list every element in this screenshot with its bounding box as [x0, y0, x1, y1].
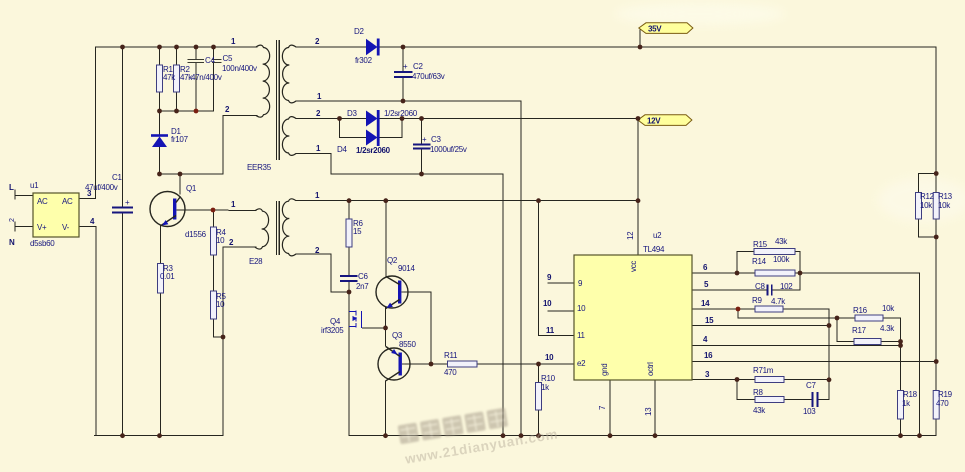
svg-text:43k: 43k	[775, 237, 788, 246]
wire node to R11	[431, 363, 448, 365]
wire secondary A return down	[520, 101, 522, 436]
wire R8/C7 branch jog	[737, 380, 755, 400]
wire Q2/Q3 emitter junction	[385, 307, 387, 346]
junction (159.5,435.7)	[157, 433, 162, 438]
resistor R7	[755, 377, 784, 383]
resistor R12	[916, 193, 922, 220]
resistor R11	[448, 361, 478, 367]
wire Q3 collector to ground rail	[385, 381, 387, 436]
svg-text:C1: C1	[112, 173, 122, 182]
diode D2 fr302	[366, 39, 378, 55]
svg-text:C4: C4	[205, 56, 215, 65]
svg-text:D4: D4	[337, 145, 347, 154]
wire N input stub	[15, 226, 33, 228]
wire pin6 feedback down to ground rail	[919, 273, 921, 436]
svg-text:11: 11	[577, 331, 586, 340]
net flag 12V	[638, 115, 692, 126]
wire C4 leads	[195, 47, 197, 59]
svg-text:+: +	[403, 62, 408, 71]
junction (936.2,173.5)	[934, 171, 939, 176]
wire pin5 to C8	[692, 289, 767, 291]
svg-text:47k: 47k	[163, 73, 176, 82]
diode D4 1/2sr2060	[366, 130, 378, 146]
capacitor C8 plates	[767, 285, 769, 296]
svg-text:100n/400v: 100n/400v	[222, 64, 257, 73]
svg-text:15: 15	[705, 316, 714, 325]
svg-text:vcc: vcc	[629, 261, 638, 272]
wire 12V vertical to IC pin12	[637, 119, 639, 256]
wire secondary ground rail	[349, 435, 936, 437]
transistor Q2 9014	[376, 276, 408, 308]
junction (122.5,47)	[120, 45, 125, 50]
junction (538.5,435.7)	[536, 433, 541, 438]
svg-text:R14: R14	[752, 257, 767, 266]
junction (349,200.7)	[347, 198, 352, 203]
svg-text:C2: C2	[413, 62, 423, 71]
svg-text:100k: 100k	[773, 255, 790, 264]
resistor R18	[898, 391, 904, 420]
svg-text:N: N	[9, 238, 15, 247]
wire pin14 to R9	[692, 308, 755, 310]
junction (385.5,327.9)	[383, 326, 388, 331]
bridge rectifier u1 d5sb60	[33, 193, 79, 237]
svg-text:Q4: Q4	[330, 317, 341, 326]
transistor Q3 8550	[378, 348, 410, 380]
svg-text:C6: C6	[358, 272, 368, 281]
capacitor C2 plates	[394, 71, 413, 73]
junction (919.5,435.7)	[917, 433, 922, 438]
junction (385.8,200.7)	[383, 198, 388, 203]
wire IC pin9 stub	[548, 282, 574, 284]
junction (936.2,361.5)	[934, 359, 939, 364]
junction (737,273)	[735, 271, 740, 276]
svg-text:D3: D3	[347, 109, 357, 118]
svg-text:9014: 9014	[398, 264, 415, 273]
wire Q1 collector	[179, 174, 181, 194]
wire Q1 emitter to R3	[160, 225, 162, 264]
svg-text:12V: 12V	[647, 117, 661, 126]
svg-text:4.7k: 4.7k	[771, 297, 786, 306]
svg-text:10k: 10k	[920, 201, 933, 210]
wire Q2 base jog	[403, 292, 431, 364]
wire pin15/R9 node down to pin3 network	[828, 326, 830, 400]
wire pin3 line to R7	[692, 379, 755, 381]
wire pin4 line	[692, 345, 901, 347]
wire bridge V+ pin3 up to rail	[79, 47, 96, 199]
wire D4 output jog	[378, 119, 402, 138]
junction (402,118.5)	[400, 116, 405, 121]
junction (196,111)	[194, 109, 199, 114]
transformer T1 EER35 core	[276, 40, 278, 160]
resistor R9	[755, 306, 783, 312]
junction (213.5,47)	[211, 45, 216, 50]
wire R15 parallel jog	[737, 252, 754, 274]
wire pin4 node down to R18	[900, 346, 902, 391]
junction (837,318)	[835, 316, 840, 321]
wire D4 parallel branch	[340, 119, 367, 138]
junction (738,309)	[736, 307, 741, 312]
junction (196,47)	[194, 45, 199, 50]
svg-text:V+: V+	[37, 223, 47, 232]
junction (176.5,47)	[174, 45, 179, 50]
junction (176.5,111)	[174, 109, 179, 114]
svg-text:13: 13	[644, 407, 653, 416]
wire C7 to riser	[818, 399, 829, 401]
svg-text:470: 470	[444, 368, 457, 377]
capacitor C5 plates	[212, 58, 222, 60]
resistor R5	[211, 291, 217, 319]
resistor R19	[933, 391, 939, 420]
wire R2 leads	[176, 47, 178, 65]
svg-text:R8: R8	[753, 388, 763, 397]
wire right column R13 node down through pin16 to R19	[935, 237, 937, 391]
svg-text:16: 16	[704, 351, 713, 360]
junction (349,292)	[347, 290, 352, 295]
wire R4-R5 link	[213, 255, 215, 291]
transistor Q4 irf3205 mosfet	[349, 311, 362, 329]
wire R8 to C7	[784, 399, 812, 401]
wire secondary B top to D3	[296, 118, 366, 120]
junction (421.5,118.5)	[419, 116, 424, 121]
wire top rail secondary to D2	[296, 46, 366, 48]
svg-text:+: +	[125, 198, 130, 207]
junction (431,364)	[429, 362, 434, 367]
wire primary bottom ground rail	[95, 435, 224, 437]
resistor R6	[346, 219, 352, 247]
transformer T2 E28 primary winding	[255, 209, 269, 249]
wire R16 leads	[837, 317, 855, 319]
svg-text:R10: R10	[541, 374, 556, 383]
junction (159.5,174)	[157, 172, 162, 177]
junction (800,273)	[798, 271, 803, 276]
junction (122.5,435.7)	[120, 433, 125, 438]
svg-text:10: 10	[216, 236, 225, 245]
transformer T1 EER35 secondary winding B	[282, 117, 296, 156]
resistor R14	[755, 270, 795, 276]
junction (180,174)	[178, 172, 183, 177]
wire pin15 line	[692, 325, 829, 327]
wire snubber bottom node line	[160, 110, 214, 112]
wire secondary B bottom return	[296, 154, 503, 436]
svg-text:10: 10	[543, 299, 552, 308]
svg-text:15: 15	[353, 227, 362, 236]
junction (640,47)	[638, 45, 643, 50]
svg-text:4.3k: 4.3k	[880, 324, 895, 333]
svg-text:V-: V-	[62, 223, 70, 232]
wire pin6 line left of R14	[692, 272, 755, 274]
svg-text:TL494: TL494	[643, 245, 665, 254]
svg-text:R15: R15	[753, 240, 768, 249]
svg-text:C7: C7	[806, 381, 816, 390]
wire R3 bottom to ground rail	[160, 293, 162, 436]
resistor R13	[933, 193, 939, 220]
wire C8 to pin6 node	[772, 273, 800, 290]
junction (638,118.5)	[636, 116, 641, 121]
svg-text:14: 14	[701, 299, 710, 308]
junction (159.5,111)	[157, 109, 162, 114]
net flag 35V	[639, 23, 693, 34]
junction (829,379.8)	[827, 377, 832, 382]
wire R13 link in main column	[935, 219, 937, 237]
watermark smudge top right	[615, 3, 785, 25]
svg-text:u2: u2	[653, 231, 662, 240]
svg-text:R16: R16	[853, 306, 868, 315]
resistor R2	[174, 65, 180, 92]
wire R12 parallel jogs	[919, 174, 937, 193]
wire C1 top	[122, 47, 124, 207]
svg-text:R9: R9	[752, 296, 762, 305]
junction (610,435.7)	[608, 433, 613, 438]
diode D3 1/2sr2060	[366, 111, 378, 127]
svg-text:fr107: fr107	[171, 135, 189, 144]
junction (900.5,435.7)	[898, 433, 903, 438]
junction (403,101)	[401, 99, 406, 104]
wire Q4 gate line	[363, 327, 386, 329]
svg-text:11: 11	[546, 326, 555, 335]
wire C2 leads	[402, 47, 404, 71]
wire E28 sec pin2 to C6 bottom node	[296, 254, 349, 292]
svg-text:R17: R17	[852, 326, 867, 335]
svg-text:fr302: fr302	[355, 56, 373, 65]
svg-text:12: 12	[626, 231, 635, 240]
transformer T1 EER35 secondary winding A	[282, 45, 296, 103]
wire C1 bottom	[122, 213, 124, 436]
junction (403,47)	[401, 45, 406, 50]
wire pin16 line	[692, 361, 936, 363]
junction (900.5,345.5)	[898, 343, 903, 348]
wire 35V rail D2 to right column	[378, 46, 936, 48]
svg-text:1k: 1k	[902, 399, 911, 408]
svg-text:R18: R18	[903, 390, 918, 399]
transformer T2 E28 core	[276, 201, 278, 255]
wire R6 to C6	[348, 247, 350, 275]
wire R19 bottom	[935, 419, 937, 436]
wire IC pin10 stub	[548, 310, 574, 312]
wire IC pin11 riser to 12V/E28 line	[539, 201, 575, 336]
junction (213,210)	[211, 208, 216, 213]
svg-text:C3: C3	[431, 135, 441, 144]
capacitor C1 plates	[112, 207, 133, 209]
capacitor C4 plates	[188, 58, 205, 60]
wire top rail 35V primary side	[96, 46, 258, 48]
svg-text:47n/400v: 47n/400v	[191, 73, 222, 82]
wire IC gnd pin7	[609, 380, 611, 436]
svg-text:AC: AC	[62, 197, 73, 206]
wire C3 leads	[421, 119, 423, 145]
svg-text:Q2: Q2	[387, 256, 398, 265]
wire Q1 base to node	[177, 209, 213, 211]
wire pin14 tap down to R16/R17	[738, 309, 837, 318]
svg-text:gnd: gnd	[600, 364, 609, 376]
junction (159.5,47)	[157, 45, 162, 50]
wire R10 leads	[538, 364, 540, 383]
capacitor C6 plates	[340, 275, 358, 277]
wire Q2 collector from E28 line	[385, 201, 387, 277]
resistor R16	[855, 315, 883, 321]
wire L input stub	[15, 195, 33, 197]
svg-text:D2: D2	[354, 27, 364, 36]
wire clamp node line to primary pin2	[160, 116, 258, 175]
junction (900.5,341.5)	[898, 339, 903, 344]
svg-text:R19: R19	[938, 390, 953, 399]
svg-text:AC: AC	[37, 197, 48, 206]
svg-text:L: L	[9, 183, 14, 192]
wire E28 sec pin1 line to 12V vertical	[296, 200, 638, 202]
junction (829,325.5)	[827, 323, 832, 328]
svg-text:R71m: R71m	[753, 366, 774, 375]
svg-text:470: 470	[936, 399, 949, 408]
junction (385.5,435.7)	[383, 433, 388, 438]
transistor Q1 d1556	[150, 192, 185, 227]
svg-text:1000uf/25v: 1000uf/25v	[430, 145, 467, 154]
op-amp U2 TL494 body	[574, 255, 692, 380]
resistor R3	[158, 264, 164, 294]
svg-text:e2: e2	[577, 359, 586, 368]
svg-text:0.01: 0.01	[160, 272, 175, 281]
wire C6 bottom through Q4 to ground rail	[348, 282, 350, 436]
wire R9 out to pin15	[783, 309, 829, 326]
svg-text:R12: R12	[920, 192, 935, 201]
wire D1 anode lead to clamp node	[159, 147, 161, 174]
transformer T2 E28 secondary winding	[282, 199, 296, 256]
junction (339.5,118.5)	[337, 116, 342, 121]
svg-text:1/2sr2060: 1/2sr2060	[356, 146, 391, 155]
wire R1 leads	[159, 47, 161, 65]
junction (521,435.7)	[519, 433, 524, 438]
svg-text:R13: R13	[938, 192, 953, 201]
wire EER35 secondary A bottom line	[296, 100, 521, 102]
svg-text:d1556: d1556	[185, 230, 207, 239]
wire R4 top lead	[213, 210, 215, 227]
svg-text:10: 10	[216, 300, 225, 309]
wire R5 bottom jog	[214, 319, 224, 337]
svg-text:+: +	[422, 135, 427, 144]
svg-text:irf3205: irf3205	[321, 326, 344, 335]
wire pin6 line right of R14	[795, 272, 920, 274]
svg-text:octrl: octrl	[646, 362, 655, 376]
junction (655,435.7)	[653, 433, 658, 438]
wire 12V line after D3	[378, 118, 638, 120]
junction (421.5,174)	[419, 172, 424, 177]
wire R18 bottom	[900, 419, 902, 436]
resistor R8	[755, 397, 784, 403]
svg-text:R11: R11	[444, 351, 458, 360]
svg-text:103: 103	[803, 407, 816, 416]
svg-text:43k: 43k	[753, 406, 766, 415]
wire R7 right lead	[784, 379, 829, 381]
junction (538.5,200.7)	[536, 198, 541, 203]
svg-text:10k: 10k	[938, 201, 951, 210]
diode D1 fr107	[151, 134, 168, 137]
resistor R10	[536, 383, 542, 411]
svg-text:470uf/63v: 470uf/63v	[412, 72, 445, 81]
svg-text:E28: E28	[249, 257, 263, 266]
svg-text:EER35: EER35	[247, 163, 272, 172]
wire R17 parallel jog	[837, 318, 854, 342]
svg-text:10: 10	[577, 304, 586, 313]
svg-text:C5: C5	[223, 54, 233, 63]
wire D1 cathode lead	[159, 111, 161, 135]
wire node to E28 primary pin1	[213, 209, 256, 212]
junction (223,337)	[221, 335, 226, 340]
svg-text:1k: 1k	[541, 383, 550, 392]
resistor R15	[754, 249, 795, 255]
svg-text:1/2sr2060: 1/2sr2060	[384, 109, 418, 118]
junction (737,379.5)	[735, 377, 740, 382]
svg-text:10k: 10k	[882, 304, 895, 313]
junction (638,200.7)	[636, 198, 641, 203]
svg-text:2n7: 2n7	[356, 282, 369, 291]
svg-text:35V: 35V	[648, 25, 662, 34]
wire Q3 base	[404, 363, 431, 365]
wire bridge V- pin4 down to ground rail	[79, 227, 96, 436]
svg-text:102: 102	[780, 282, 793, 291]
svg-text:10: 10	[545, 353, 554, 362]
junction (538.5,364)	[536, 362, 541, 367]
transformer T1 EER35 primary winding	[256, 45, 270, 117]
capacitor C3 plates	[413, 144, 431, 146]
resistor R4	[211, 227, 217, 255]
wire R11 to IC pin e2	[477, 363, 574, 365]
svg-text:8550: 8550	[399, 340, 416, 349]
wire C5 leads	[213, 47, 215, 59]
watermark smudge right	[878, 178, 965, 222]
junction (936.2,237)	[934, 235, 939, 240]
svg-text:u1: u1	[30, 181, 39, 190]
wire IC octrl pin13	[654, 380, 656, 436]
svg-text:Q3: Q3	[392, 331, 403, 340]
junction (503,435.7)	[501, 433, 506, 438]
wire right column down to R12/R13	[935, 47, 937, 193]
wire 35V flag stem	[639, 30, 641, 47]
capacitor C7 plates	[812, 392, 814, 407]
watermark chinese characters	[398, 400, 560, 467]
resistor R1	[157, 65, 163, 92]
svg-text:d5sb60: d5sb60	[30, 239, 55, 248]
svg-text:C8: C8	[755, 282, 765, 291]
wire R6 top lead	[348, 201, 350, 219]
resistor R17	[854, 339, 881, 345]
svg-text:2: 2	[9, 218, 16, 222]
svg-text:47uf/400v: 47uf/400v	[85, 183, 118, 192]
wire 12V flag stem	[638, 119, 641, 121]
svg-text:Q1: Q1	[186, 184, 197, 193]
wire E28 primary pin2 down to ground rail	[223, 247, 256, 436]
